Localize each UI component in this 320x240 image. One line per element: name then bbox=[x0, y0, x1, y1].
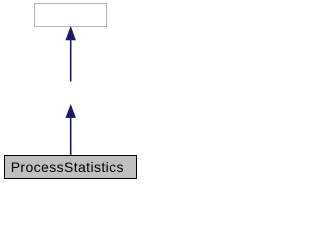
inheritance arrow lower (from ProcessStatistics) bbox=[66, 105, 76, 155]
svg-text:ProcessStatistics: ProcessStatistics bbox=[11, 159, 124, 175]
base class node (empty box at top) bbox=[35, 4, 107, 27]
class node ProcessStatistics bbox=[5, 156, 137, 179]
inheritance arrow upper (to base class) bbox=[66, 27, 76, 82]
